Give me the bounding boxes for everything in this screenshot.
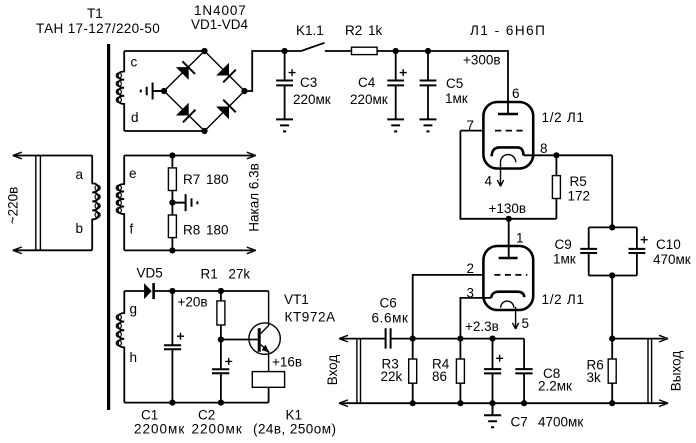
svg-text:R5: R5	[570, 174, 587, 189]
label C1	[134, 408, 185, 437]
output arrow bottom	[659, 400, 668, 407]
svg-text:c: c	[131, 55, 138, 70]
svg-text:220мк: 220мк	[293, 92, 331, 107]
wire relay section bottom rail	[124, 402, 268, 404]
secondary winding c-d	[118, 51, 124, 131]
label R4	[432, 357, 450, 385]
switch K1.1 blade	[301, 43, 325, 51]
heater arrow top	[247, 152, 256, 159]
label R3	[381, 357, 403, 385]
wire base	[221, 339, 258, 341]
node bridge top	[201, 48, 207, 54]
node C8 bottom	[521, 400, 527, 406]
wire switch to R2	[325, 50, 352, 52]
label C9	[553, 237, 576, 267]
svg-text:27k: 27k	[228, 267, 250, 282]
svg-text:(24в, 250ом): (24в, 250ом)	[253, 422, 336, 437]
node C2 bottom	[218, 400, 224, 406]
svg-text:C9: C9	[555, 237, 572, 252]
transistor VT1	[249, 291, 280, 372]
svg-text:8: 8	[540, 141, 548, 156]
svg-text:22k: 22k	[381, 369, 403, 384]
svg-text:R2: R2	[345, 23, 362, 38]
resistor R5	[552, 155, 560, 219]
tube U1b grid (dashed)	[494, 274, 527, 276]
wire cathode pin3	[460, 298, 491, 339]
capacitor C2	[212, 340, 232, 403]
wire R2 to tube anode (+300v rail)	[377, 51, 508, 114]
svg-text:Выход: Выход	[669, 351, 684, 392]
wire C9/C10 top bus	[589, 226, 637, 228]
node R4 bottom	[457, 400, 463, 406]
node C9 bus top	[609, 224, 615, 230]
wire input to C6	[339, 338, 386, 340]
diode VD3	[176, 103, 196, 123]
capacitor C4	[387, 51, 406, 119]
primary winding a-b	[92, 156, 98, 251]
svg-text:С5: С5	[446, 76, 463, 91]
wire VD5 to collector corner (+20v rail)	[155, 290, 269, 292]
wire mains bottom	[13, 249, 92, 251]
label C7	[511, 415, 584, 430]
ground under bus	[484, 403, 501, 427]
svg-text:R7: R7	[183, 172, 200, 187]
svg-text:Вход: Вход	[325, 355, 340, 386]
svg-text:g: g	[130, 302, 138, 317]
svg-text:1мк: 1мк	[445, 91, 468, 106]
label C3	[293, 75, 331, 107]
ground under C5	[420, 119, 437, 131]
tube U1b heater arc	[501, 301, 514, 308]
svg-text:4700мк: 4700мк	[538, 415, 583, 430]
svg-text:1мк: 1мк	[553, 252, 576, 267]
label VT1	[284, 292, 336, 325]
svg-text:f: f	[130, 222, 134, 237]
svg-text:+2.3в: +2.3в	[465, 319, 499, 334]
output jack symbol	[648, 339, 652, 404]
label R8	[183, 223, 229, 238]
node C5 tap	[425, 48, 431, 54]
pin 4 lead with arrow	[497, 162, 503, 186]
label C10	[653, 237, 691, 267]
node R7 top	[169, 152, 175, 158]
heater arrow bottom	[247, 247, 256, 254]
svg-text:86: 86	[432, 369, 447, 384]
node bridge bottom	[201, 128, 207, 134]
resistor R8	[168, 203, 176, 251]
label K1	[253, 408, 336, 437]
svg-text:C1: C1	[141, 408, 158, 423]
capacitor C6	[386, 328, 391, 348]
winding e-f loop curls	[116, 185, 121, 213]
node output bottom	[609, 400, 615, 406]
svg-text:K1: K1	[286, 408, 303, 423]
resistor R4	[456, 339, 464, 404]
wire grid pin7	[460, 130, 483, 132]
mains plug symbol	[36, 156, 41, 251]
svg-text:K1.1: K1.1	[296, 23, 324, 38]
wire pin1 anode feed	[508, 219, 510, 258]
relay winding g-h	[118, 291, 124, 403]
svg-text:3k: 3k	[587, 370, 602, 385]
svg-text:a: a	[76, 167, 84, 182]
svg-text:5: 5	[522, 316, 530, 331]
resistor R6	[608, 339, 616, 404]
ground under C3	[276, 119, 293, 131]
svg-text:+130в: +130в	[489, 201, 527, 216]
tube U1b envelope	[483, 246, 533, 310]
svg-text:С4: С4	[358, 75, 376, 90]
svg-text:Накал 6.3в: Накал 6.3в	[247, 163, 262, 232]
svg-text:КТ972А: КТ972А	[285, 310, 336, 325]
svg-text:C2: C2	[198, 408, 215, 423]
svg-text:2: 2	[467, 261, 475, 276]
tube U1b cathode	[491, 292, 524, 298]
svg-text:+300в: +300в	[463, 53, 501, 68]
wire C9/C10 bottom bus	[589, 275, 637, 277]
resistor R2 label	[345, 23, 383, 38]
node R1 top	[218, 288, 224, 294]
capacitor C10	[629, 227, 648, 275]
ground under C4	[387, 119, 404, 131]
node heater center tap	[169, 200, 175, 206]
svg-text:e: e	[129, 166, 137, 181]
svg-text:С6: С6	[380, 296, 397, 311]
svg-text:VD5: VD5	[137, 266, 163, 281]
node C1 top	[169, 288, 175, 294]
tube U1a envelope	[483, 102, 533, 169]
svg-text:C7: C7	[511, 415, 528, 430]
heater winding e-f	[118, 156, 124, 251]
svg-text:470мк: 470мк	[653, 252, 691, 267]
svg-text:ТАН 17-127/220-50: ТАН 17-127/220-50	[36, 21, 160, 36]
svg-text:6: 6	[512, 86, 520, 101]
transformer T1 designator label	[36, 6, 160, 36]
svg-text:C10: C10	[656, 237, 681, 252]
diode VD2	[216, 63, 236, 83]
node R8 bottom	[169, 247, 175, 253]
svg-text:2.2мк: 2.2мк	[538, 379, 572, 394]
node C4 tap	[393, 48, 399, 54]
diode bridge VD1-VD4 type label	[191, 3, 249, 32]
bridge arm wires	[164, 51, 245, 131]
input arrow top	[339, 335, 348, 342]
label C6	[372, 296, 409, 326]
output arrow top	[659, 335, 668, 342]
tube U1b anode	[499, 257, 518, 260]
svg-text:1k: 1k	[368, 23, 383, 38]
node pin8	[553, 152, 559, 158]
capacitor C9	[580, 227, 597, 275]
label R5	[568, 174, 591, 204]
tube U1a cathode	[492, 147, 524, 156]
svg-text:220мк: 220мк	[350, 92, 388, 107]
node C7 top	[489, 336, 495, 342]
tube U1a grid (dashed)	[495, 130, 523, 132]
wire +130v net	[460, 131, 556, 219]
wire cathode pin8	[524, 154, 613, 156]
svg-text:4: 4	[485, 174, 493, 189]
wire grid pin2	[413, 275, 483, 339]
svg-text:VD1-VD4: VD1-VD4	[191, 17, 249, 32]
tube U1a anode	[498, 113, 518, 116]
svg-text:1N4007: 1N4007	[194, 3, 247, 18]
svg-text:2200мк: 2200мк	[192, 422, 243, 437]
svg-text:180: 180	[206, 172, 229, 187]
svg-text:6.6мк: 6.6мк	[372, 311, 409, 326]
svg-text:Л1 - 6Н6П: Л1 - 6Н6П	[470, 23, 546, 38]
resistor R3	[409, 339, 417, 404]
wire heater bottom	[124, 249, 253, 251]
diode VD1	[176, 61, 195, 80]
svg-text:172: 172	[568, 189, 591, 204]
wire output top	[612, 338, 665, 340]
resistor R1	[217, 291, 225, 340]
wire winding c to bridge top	[124, 50, 204, 52]
pin 5 lead with arrow	[513, 307, 519, 329]
node bridge right	[241, 88, 247, 94]
capacitor C5	[420, 51, 437, 119]
node bridge left	[161, 88, 167, 94]
svg-text:VT1: VT1	[284, 292, 309, 307]
mains input arrow top	[13, 152, 22, 159]
input jack symbol	[357, 339, 361, 404]
capacitor C7	[484, 339, 503, 404]
wire winding d to bridge bottom	[124, 130, 204, 132]
wire heater top	[124, 155, 253, 157]
resistor R2	[352, 47, 378, 54]
node C9 bus bottom	[609, 272, 615, 278]
diode VD5	[144, 283, 155, 299]
transformer core	[107, 44, 110, 410]
label C4	[350, 75, 388, 107]
node R3 bottom	[410, 400, 416, 406]
label C8	[538, 366, 572, 394]
label R1	[201, 267, 251, 282]
svg-text:180: 180	[206, 223, 229, 238]
node output top	[609, 336, 615, 342]
svg-text:2200мк: 2200мк	[134, 422, 185, 437]
diode VD4	[216, 100, 236, 120]
node R1-C2-base	[218, 336, 224, 342]
node R4 top	[457, 336, 463, 342]
label R7	[183, 172, 229, 187]
node C3 tap	[282, 48, 288, 54]
node R3 top	[410, 336, 416, 342]
svg-text:+20в: +20в	[178, 295, 208, 310]
svg-text:+16в: +16в	[272, 355, 302, 370]
relay coil K1	[252, 372, 284, 403]
ground at bridge left	[141, 83, 164, 100]
node C1 bottom	[169, 400, 175, 406]
mains input arrow bottom	[13, 247, 22, 254]
wire pin8 to C9 bus	[611, 155, 613, 227]
svg-text:1/2 Л1: 1/2 Л1	[542, 292, 585, 307]
resistor R7	[168, 156, 176, 203]
wire bridge output to switch	[245, 51, 302, 91]
capacitor C3	[276, 51, 295, 119]
input arrow bottom	[339, 400, 348, 407]
svg-text:~220в: ~220в	[6, 187, 21, 225]
primary winding loop curls	[95, 185, 100, 217]
svg-text:d: d	[131, 110, 139, 125]
svg-text:R1: R1	[201, 267, 218, 282]
node C7 bottom	[489, 400, 495, 406]
capacitor C8	[515, 339, 532, 404]
svg-text:1: 1	[516, 231, 524, 246]
label R6	[587, 358, 604, 386]
svg-text:1/2 Л1: 1/2 Л1	[542, 110, 585, 125]
svg-text:С3: С3	[300, 75, 317, 90]
svg-text:h: h	[130, 350, 138, 365]
wire C6 to grid node row	[391, 338, 524, 340]
capacitor C1	[164, 291, 184, 403]
label C2	[192, 408, 243, 437]
label C5	[445, 76, 468, 106]
tube U1a heater arc	[500, 155, 515, 163]
svg-text:Т1: Т1	[87, 6, 103, 21]
winding c-d loop curls	[116, 73, 121, 102]
node +130v to anode	[506, 216, 512, 222]
ground bus wire	[339, 402, 665, 404]
svg-text:R8: R8	[183, 223, 200, 238]
svg-text:b: b	[76, 221, 84, 236]
wire mains top	[13, 155, 92, 157]
winding g-h loop curls	[116, 315, 121, 346]
wire bus to output	[611, 276, 613, 339]
wire winding g to VD5	[124, 290, 144, 292]
ground at heater center tap	[172, 194, 197, 211]
